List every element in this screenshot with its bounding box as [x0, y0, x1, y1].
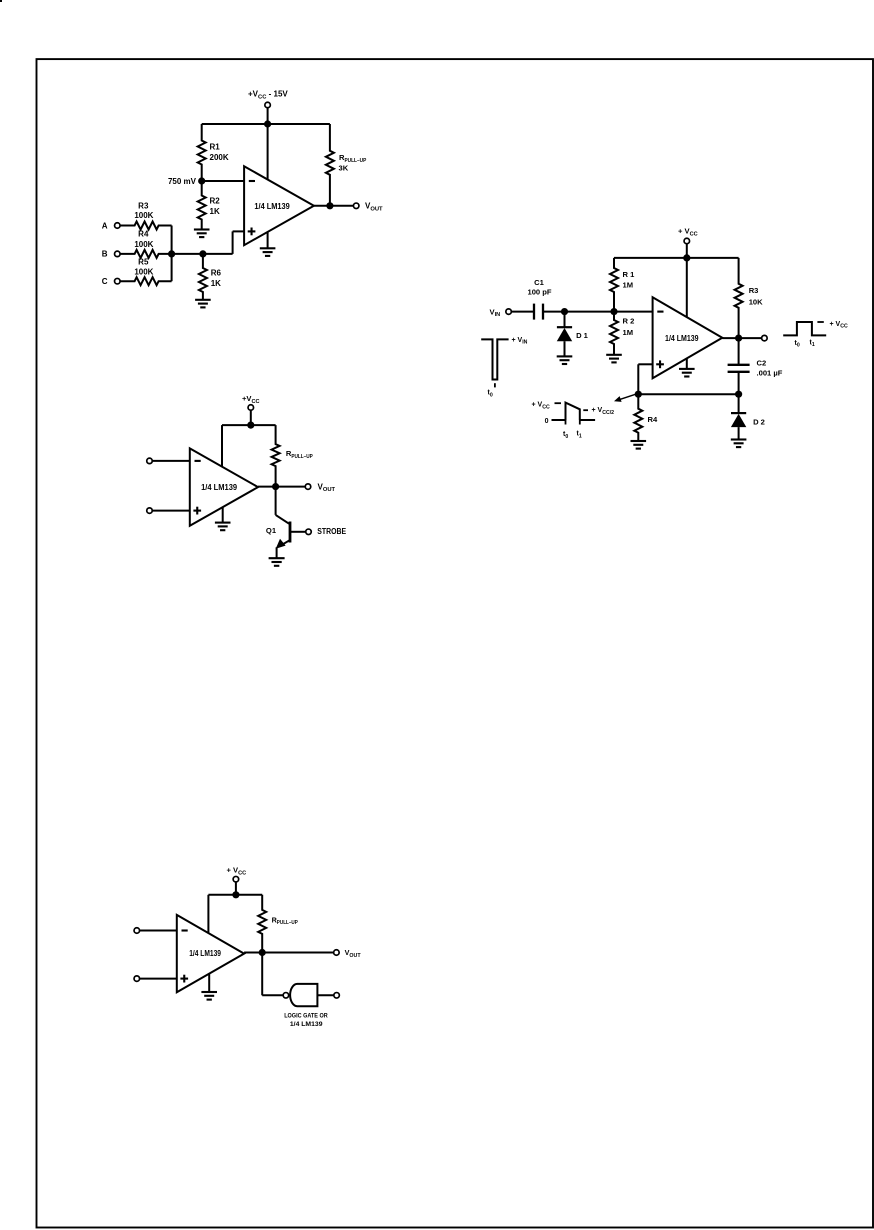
svg-text:B: B: [102, 250, 108, 259]
wire plus input riser: [233, 231, 245, 254]
wire ground pin U2: [686, 359, 688, 369]
dash before +VCC/2 label: [583, 409, 588, 411]
ground below U3: [215, 523, 231, 531]
wire plus input U3: [153, 510, 190, 512]
resistor R3 10K, circuit 2: [735, 258, 743, 338]
label R5 100K: [134, 257, 153, 276]
node feedback junction right: [735, 391, 742, 398]
label R2 1M, circuit 2: [623, 316, 635, 337]
label C1 100 pF: [527, 278, 551, 296]
dash at output pulse top: [817, 321, 823, 323]
label R1 1M, circuit 2: [623, 270, 636, 290]
plus input symbol U2: [656, 360, 664, 368]
wire V+ power pin U1: [267, 124, 269, 180]
node feedback junction left: [635, 391, 642, 398]
label +VIN waveform: [512, 337, 528, 346]
waveform VIN input pulse: [481, 339, 508, 387]
svg-text:Q1: Q1: [266, 526, 277, 535]
resistor R5 100K: [120, 277, 171, 285]
resistor R6 1K: [199, 254, 207, 300]
svg-text:1/4 LM139: 1/4 LM139: [290, 1021, 323, 1028]
svg-text:1M: 1M: [623, 280, 634, 289]
node VOUT junction, circuit 3: [272, 483, 279, 490]
wire U1 output to VOUT terminal: [314, 205, 353, 207]
diode D2: [731, 394, 746, 440]
node output junction, circuit 2: [735, 335, 742, 342]
svg-text:R3: R3: [749, 286, 759, 295]
plus input symbol U4: [180, 975, 188, 983]
label C2 .001 uF: [757, 359, 783, 378]
svg-text:R 2: R 2: [623, 316, 635, 325]
ground below R6: [195, 300, 211, 308]
plus input symbol U1: [248, 228, 256, 236]
transistor Q1 base bar: [289, 522, 292, 543]
resistor R4 100K: [120, 250, 171, 258]
label 1/4 LM139 (U4): [189, 949, 221, 958]
label R4 100K: [134, 230, 153, 249]
wire minus input U3: [153, 460, 190, 462]
label R6 1K: [211, 269, 222, 289]
wire VCC terminal to bus, circuit 2: [686, 244, 688, 258]
svg-text:R1: R1: [210, 143, 221, 152]
op-amp U3 1/4 LM139: [190, 448, 258, 525]
node VOUT junction, circuit 4: [259, 949, 266, 956]
label 750 mV: [168, 177, 197, 186]
wire gate output: [317, 994, 333, 996]
corner registration mark: [0, 0, 2, 2]
wire V+ power pin U4: [207, 895, 209, 933]
label R3 10K, circuit 2: [749, 286, 763, 307]
terminal VOUT, circuit 1: [353, 203, 359, 209]
svg-text:R3: R3: [138, 201, 149, 210]
svg-text:1/4 LM139: 1/4 LM139: [189, 949, 221, 958]
svg-text:3K: 3K: [339, 164, 349, 173]
wire VCC terminal to bus, circuit 1: [267, 108, 269, 124]
ground below R4: [631, 441, 647, 449]
output terminal, circuit 2: [762, 335, 768, 341]
wire VOUT junction to gate input: [262, 953, 282, 996]
wire VCC bus, circuit 4: [208, 894, 262, 896]
wire VCC bus, circuit 2: [614, 257, 739, 259]
wire VCC terminal to bus, circuit 3: [250, 411, 252, 426]
wire plus input U4: [140, 978, 177, 980]
terminal VOUT, circuit 3: [305, 484, 311, 490]
wire VIN to C1: [512, 311, 533, 313]
dash after +VCC label: [555, 402, 562, 404]
node R6 top: [199, 250, 206, 257]
node 750 mV (R1/R2 divider): [198, 177, 205, 184]
wire ground pin U4: [208, 973, 210, 992]
svg-text:LOGIC GATE OR: LOGIC GATE OR: [284, 1012, 328, 1019]
op-amp U2 1/4 LM139: [653, 297, 723, 378]
capacitor C2 .001uF: [728, 338, 750, 394]
input terminal A: [102, 221, 120, 230]
node R1/R2 junction: [610, 308, 617, 315]
op-amp U4 1/4 LM139: [177, 915, 244, 992]
ground below R2, circuit 2: [606, 355, 622, 363]
minus input symbol U4: [182, 929, 188, 931]
label RPULL-UP 3K: [339, 153, 367, 173]
label +VCC waveform 2: [532, 402, 550, 411]
resistor RPULL-UP, circuit 4: [258, 895, 266, 953]
minus input symbol U2: [657, 311, 663, 313]
label 1/4 LM139 (U3): [201, 483, 238, 492]
input terminal minus U3: [147, 458, 153, 464]
svg-text:750 mV: 750 mV: [168, 177, 197, 186]
label t0 output waveform: [795, 340, 800, 349]
svg-text:1/4 LM139: 1/4 LM139: [254, 202, 290, 211]
svg-text:10K: 10K: [749, 298, 763, 307]
emitter Q1 with arrow: [276, 539, 290, 558]
wire divider node to inverting input: [202, 180, 244, 182]
label RPULL-UP, circuit 3: [286, 449, 313, 460]
waveform VCC/2 at plus input: [552, 403, 596, 425]
wire ground pin U1: [267, 232, 269, 248]
minus input symbol U1: [249, 180, 255, 182]
resistor R3 100K: [120, 222, 171, 230]
resistor RPULL-UP, circuit 3: [272, 425, 280, 487]
label RPULL-UP, circuit 4: [272, 915, 299, 926]
svg-text:C2: C2: [757, 359, 767, 368]
node VCC bus junction, circuit 2: [683, 254, 690, 261]
wire C1 to inverting input: [544, 311, 653, 313]
ground below Q1 emitter: [269, 558, 285, 566]
resistor R1 200K: [198, 124, 206, 181]
ground below U4: [201, 992, 217, 1000]
resistor R1 1M, circuit 2: [610, 258, 618, 312]
node VCC bus junction, circuit 4: [232, 891, 239, 898]
label t1 output waveform: [810, 339, 815, 348]
wire plus input U2: [638, 364, 652, 394]
label R2 1K: [210, 197, 221, 217]
input terminal VIN: [490, 307, 512, 318]
resistor R2 1K: [198, 181, 206, 229]
wire ground pin U3: [222, 507, 224, 523]
diode D1: [557, 312, 572, 357]
svg-text:1K: 1K: [210, 207, 220, 216]
svg-text:D 1: D 1: [576, 331, 589, 340]
label R4: [648, 415, 658, 424]
label VOUT, circuit 4: [345, 948, 362, 959]
ground below R2: [194, 230, 210, 238]
input terminal minus U4: [134, 928, 140, 934]
svg-text:C: C: [102, 277, 108, 286]
wire VCC bus, circuit 3: [222, 424, 276, 426]
wire minus input U4: [140, 930, 177, 932]
logic gate body (1/4 LM139 or logic gate): [290, 984, 317, 1006]
net +VCC supply terminal, circuit 2: [678, 227, 698, 244]
net +VCC=15V supply terminal, circuit 1: [248, 90, 288, 108]
wire U3 output to VOUT terminal: [258, 486, 305, 488]
terminal VOUT, circuit 4: [334, 950, 340, 956]
svg-text:100K: 100K: [134, 240, 153, 249]
label VOUT, circuit 1: [365, 202, 383, 213]
label 1/4 LM139 (U1): [254, 202, 290, 211]
svg-text:1M: 1M: [623, 328, 634, 337]
wire U4 output to VOUT terminal: [244, 952, 333, 954]
wire collector Q1: [276, 487, 289, 524]
label STROBE: [317, 527, 346, 536]
resistor R2 1M, circuit 2: [610, 312, 618, 355]
node VCC bus junction, circuit 1: [264, 120, 271, 127]
net +VCC supply terminal, circuit 3: [242, 394, 260, 410]
label t0 VIN waveform: [488, 390, 493, 399]
wire VCC bus, circuit 1: [202, 123, 330, 125]
plus input symbol U3: [193, 507, 201, 515]
label Q1: [266, 526, 277, 535]
wire V+ power pin U2: [686, 258, 688, 317]
svg-text:R 1: R 1: [623, 270, 636, 279]
resistor RPULL-UP 3K: [326, 124, 334, 206]
label +VCC/2: [592, 407, 615, 416]
net +VCC supply terminal, circuit 4: [227, 866, 247, 882]
label +VCC output waveform: [830, 321, 848, 330]
svg-text:1/4 LM139: 1/4 LM139: [665, 334, 699, 343]
wire R6 node to plus input riser: [203, 253, 233, 255]
svg-text:STROBE: STROBE: [317, 527, 346, 536]
svg-text:100 pF: 100 pF: [527, 288, 551, 297]
node summing junction: [168, 250, 175, 257]
ground below U2: [679, 369, 695, 377]
terminal gate output: [334, 993, 340, 999]
label t0 waveform 2: [563, 431, 568, 440]
input terminal plus U4: [134, 976, 140, 982]
label D2: [753, 417, 765, 426]
terminal STROBE: [306, 529, 312, 535]
svg-text:R4: R4: [648, 415, 658, 424]
svg-text:1/4 LM139: 1/4 LM139: [201, 483, 238, 492]
label LOGIC GATE OR / 1/4 LM139: [284, 1012, 328, 1028]
input terminal plus U3: [147, 508, 153, 513]
input terminal B: [102, 250, 120, 259]
gate input inverter bubble: [283, 993, 289, 999]
svg-text:D 2: D 2: [753, 417, 765, 426]
label VOUT, circuit 3: [318, 482, 336, 493]
wire summing junction to R6 node: [172, 253, 203, 255]
svg-text:C1: C1: [534, 278, 544, 287]
svg-text:R6: R6: [211, 269, 222, 278]
input terminal C: [102, 277, 120, 286]
wire feedback bottom: [638, 393, 738, 395]
wire VCC terminal to bus, circuit 4: [235, 882, 237, 895]
wire U2 output to terminal: [722, 337, 761, 339]
svg-text:R4: R4: [138, 230, 149, 239]
svg-text:100K: 100K: [134, 268, 153, 277]
svg-text:1K: 1K: [211, 279, 221, 288]
arrow from feedback node to +VCC/2 label: [614, 394, 637, 402]
svg-text:0: 0: [545, 418, 549, 425]
op-amp U1 1/4 LM139: [244, 166, 314, 245]
svg-text:100K: 100K: [134, 211, 153, 220]
capacitor C1 100 pF: [534, 304, 543, 320]
svg-text:A: A: [102, 221, 108, 230]
label R3 100K: [134, 201, 153, 220]
svg-text:R2: R2: [210, 197, 221, 206]
waveform output pulse, circuit 2: [783, 322, 826, 335]
label D1: [576, 331, 589, 340]
ground below D2: [731, 440, 747, 448]
node D1 anode junction: [561, 308, 568, 315]
wire joining A,B,C resistors: [171, 226, 173, 282]
ground below D1: [557, 356, 573, 364]
svg-text:.001 µF: .001 µF: [757, 369, 783, 378]
ground below U1: [260, 248, 276, 256]
label R1 200K: [210, 143, 229, 163]
node VOUT junction, circuit 1: [326, 202, 333, 209]
minus input symbol U3: [195, 460, 201, 462]
wire base Q1 to strobe terminal: [290, 531, 305, 533]
svg-text:R5: R5: [138, 257, 149, 266]
svg-text:200K: 200K: [210, 153, 229, 162]
node VCC bus junction, circuit 3: [247, 422, 254, 429]
label 1/4 LM139 (U2): [665, 334, 699, 343]
resistor R4: [634, 394, 642, 441]
label 0 waveform 2: [545, 418, 549, 425]
label t1 waveform 2: [577, 431, 582, 440]
wire V+ power pin U3: [221, 425, 223, 466]
